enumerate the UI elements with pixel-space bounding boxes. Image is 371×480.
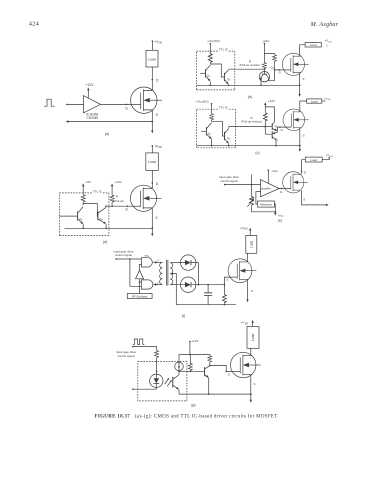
wire resistor to LED (g) [156, 358, 158, 374]
wire gate into bar (b) [284, 69, 291, 71]
node input (e) [224, 184, 226, 186]
resistor R2 right (b) [273, 54, 277, 62]
wire collector up through circle to bus (g) [178, 355, 180, 375]
transistor Q6 (g) [204, 367, 206, 376]
light arrows (g) [165, 379, 172, 387]
svg-text:control signal: control signal [115, 253, 132, 257]
svg-text:S: S [251, 289, 253, 293]
svg-text:2: 2 [230, 139, 232, 141]
svg-text:(d): (d) [103, 240, 107, 244]
svg-text:-Vcc: -Vcc [278, 213, 284, 217]
wire Q2 emitter to rail (b) [228, 83, 230, 86]
svg-text:L: L [327, 46, 329, 48]
wire Q1 emitter to rail (b) [209, 81, 211, 85]
resistor R1 TTL (d) [81, 194, 85, 203]
wire oscillator to inverter and AND2 (f) [139, 279, 141, 294]
wire resistor to node (b) [209, 63, 211, 64]
svg-text:G: G [280, 190, 283, 194]
power terminal +VDD (e) [322, 158, 329, 160]
node center tap (f) [172, 273, 174, 275]
diode D2 circled (f) [181, 277, 196, 292]
wire branch down to AND gate 2 (f) [130, 259, 142, 286]
node D (a) [152, 79, 154, 81]
wire source down and right (e) [302, 191, 328, 205]
power terminal +VDD (a) [152, 40, 154, 42]
node input (f) [115, 258, 117, 260]
svg-text:D: D [156, 182, 159, 186]
node D (d) [152, 182, 154, 184]
transistor Q3 NPN (c) [271, 123, 273, 129]
wire node C to Q3 base (c) [265, 126, 272, 128]
diode D1 circled (f) [181, 255, 196, 270]
input pulse symbol (g) [133, 339, 144, 344]
svg-text:4: 4 [277, 140, 279, 142]
svg-text:S: S [302, 77, 304, 81]
node collector output (g) [209, 365, 211, 367]
transformer core (f) [166, 260, 168, 286]
wire source to rail (c) [299, 128, 301, 146]
node gate branch (f) [224, 284, 226, 286]
svg-text:D: D [156, 78, 159, 82]
wire source down (d) [151, 208, 153, 228]
transistor Q2 (b) [223, 73, 225, 81]
wire gate node line (d) [106, 203, 131, 206]
wire drain up (e) [302, 160, 306, 174]
TTL IC dashed box (b) [197, 51, 235, 90]
wire TTL output to node C (c) [229, 127, 265, 128]
wire phototransistor emitter to rail (g) [178, 390, 180, 395]
svg-text:S: S [253, 382, 255, 386]
wire reference to -Vcc node (e) [273, 204, 276, 212]
LED D3 circled (g) [150, 374, 163, 387]
wire input to resistor (g) [133, 347, 157, 350]
wire AND1 output x to transformer (f) [153, 261, 162, 263]
optocoupler dashed box (g) [138, 362, 187, 401]
power terminal +Vcc (e) [268, 169, 270, 171]
svg-text:G: G [281, 128, 284, 132]
node input (g) [132, 346, 134, 348]
svg-text:amplifier: amplifier [261, 187, 271, 191]
wire input to buffer [67, 103, 84, 105]
ground arrow (d) [151, 228, 153, 235]
wire node to Q2 base (b) [210, 64, 224, 77]
svg-text:M. Asghar: M. Asghar [310, 21, 339, 28]
transistor Q MOSFET (e) [283, 172, 308, 193]
ground arrow (a) [151, 122, 153, 133]
wire source down and ground arrow (f) [247, 280, 249, 301]
op-amp comparator U2 (e) [261, 180, 280, 197]
transistor Q2 (c) [224, 132, 226, 141]
svg-text:Load: Load [310, 158, 317, 162]
svg-text:S: S [303, 197, 305, 201]
wire pot bottom rail (e) [252, 206, 276, 212]
power terminal +VDD (d) [152, 145, 154, 147]
svg-text:S: S [155, 216, 158, 220]
wire Q3 collector up to gate node (b) [274, 70, 276, 81]
svg-text:DD: DD [159, 42, 163, 45]
node source-rail junction (a) [151, 121, 153, 123]
wire bottom rail (a) [67, 121, 153, 123]
wire gate into bar (f) [230, 276, 237, 278]
wire AND outputs to primary ends (f) [161, 262, 163, 284]
load box tall (f) [246, 235, 257, 253]
svg-text:G: G [125, 208, 128, 212]
svg-text:1: 1 [81, 220, 83, 222]
load box tall (g) [247, 327, 259, 349]
resistor R collector (g) [209, 354, 211, 357]
svg-text:G: G [125, 106, 128, 110]
svg-text:Load: Load [148, 160, 156, 164]
wire drain up (c) [300, 101, 307, 112]
svg-text:R: R [116, 194, 118, 198]
resistor R in (g) [155, 350, 159, 359]
wire Q2 emitter to rail (d) [105, 224, 107, 228]
wire inverting input to reference (e) [256, 192, 261, 204]
wire node C down to Q4 base (c) [265, 122, 272, 134]
svg-text:(b): (b) [248, 95, 252, 99]
wire R2 to gate node (b) [275, 62, 284, 70]
svg-text:DD: DD [245, 324, 249, 326]
potentiometer (e) [250, 196, 254, 206]
wire gate into bar (g) [232, 370, 240, 372]
TTL IC dashed box (c) [197, 109, 236, 148]
wire source down (a) [151, 111, 153, 122]
svg-text:DD: DD [328, 99, 332, 101]
transistor Q MOSFET (a) [131, 87, 162, 113]
wire drain up (f) [247, 253, 249, 261]
wire bottom rail (d) [65, 227, 153, 229]
svg-text:D: D [304, 171, 307, 175]
node G (d) [127, 205, 129, 207]
svg-text:control signal: control signal [220, 179, 237, 183]
AND gate U3b (f) [141, 280, 153, 289]
power terminal +12V (g) [189, 341, 191, 343]
resistor R gate (f) [223, 285, 225, 294]
svg-text:(Pull-up resistor): (Pull-up resistor) [241, 119, 262, 123]
AND gate U3a (f) [141, 258, 152, 267]
svg-text:G: G [226, 278, 229, 282]
wire gate into bar (e) [285, 188, 291, 190]
node A (d) [82, 202, 84, 205]
RF oscillator box (f) [127, 294, 152, 299]
svg-text:+Vcc(5V): +Vcc(5V) [207, 39, 220, 43]
power terminal +12V (a) [87, 89, 89, 99]
transistor Q MOSFET (b) [282, 53, 308, 75]
svg-text:Load: Load [251, 334, 255, 342]
svg-text:y: y [157, 280, 159, 284]
svg-text:Load: Load [311, 99, 318, 103]
svg-text:G: G [279, 71, 282, 75]
wire diode outputs joined (f) [196, 263, 199, 285]
load box (b) [305, 43, 321, 47]
wire Q6 emitter to rail (g) [208, 378, 210, 394]
wire secondary bottom to diode D2 (f) [170, 284, 180, 286]
transistor Q MOSFET (f) [228, 259, 256, 283]
svg-text:424: 424 [29, 20, 40, 27]
svg-text:+12V: +12V [114, 180, 122, 184]
svg-text:+12V: +12V [268, 99, 276, 103]
resistor R base pull-up (g) [189, 355, 191, 363]
wire split to second resistor (b) [264, 53, 274, 56]
wire Q3 emitter to rail (b) [260, 81, 262, 86]
wire gate into bar (a) [131, 103, 141, 105]
transistor Q1 (d) [77, 212, 79, 221]
transformer T1 primary (f) [160, 262, 163, 284]
svg-text:+12V: +12V [262, 39, 270, 43]
svg-text:x: x [157, 258, 159, 262]
load box (a) [146, 50, 158, 67]
op-amp buffer U1 CD4049 [84, 96, 101, 113]
wire up to gate (f) [224, 277, 230, 285]
svg-text:(Pull-up): (Pull-up) [113, 199, 124, 203]
svg-text:FIGURE 18.37 (a)–(g): CMOS a: FIGURE 18.37 (a)–(g): CMOS and TTL IC-ba… [95, 415, 278, 420]
svg-text:+Vcc(5V): +Vcc(5V) [196, 99, 209, 103]
svg-text:2: 2 [102, 220, 104, 222]
wire AND2 output y to transformer (f) [153, 284, 162, 286]
wire LED out to return (g) [133, 388, 156, 390]
svg-text:DD: DD [244, 229, 248, 231]
wire gate into bar (c) [287, 126, 291, 128]
ground arrow (b) [299, 85, 301, 96]
wire secondary top to diode D1 (f) [170, 262, 180, 264]
phototransistor Q5 (g) [172, 377, 174, 388]
wire drain up (b) [300, 45, 306, 56]
wire gate into bar (d) [131, 205, 141, 207]
wire Q2 emitter to rail (c) [228, 144, 230, 146]
wire bottom rail (f) [176, 304, 236, 306]
svg-text:(f): (f) [182, 314, 185, 318]
svg-text:S: S [303, 133, 305, 137]
reference box (e) [258, 201, 275, 207]
wire output to gate (g) [210, 366, 233, 372]
resistor R1 TTL (c) [210, 113, 214, 121]
wire node to Q2 base (c) [212, 121, 225, 136]
wire bottom rail (b) [197, 84, 300, 86]
svg-text:TTL IC: TTL IC [219, 48, 229, 52]
load box (c) [307, 99, 322, 103]
wire input to amplifier (e) [225, 184, 261, 186]
small circle detector (g) [175, 362, 184, 371]
wire bottom rail (g) [179, 393, 251, 395]
wire output to gate (e) [279, 188, 285, 190]
svg-text:(g): (g) [191, 403, 195, 407]
svg-text:+12V: +12V [85, 83, 94, 87]
svg-text:DD: DD [330, 156, 334, 158]
resistor R1 TTL (b) [208, 53, 212, 63]
transistor Q4 PNP (c) [271, 131, 273, 138]
wire TTL output to node A (b) [229, 68, 265, 70]
wire bottom rail (c) [197, 145, 300, 147]
wire Q1 emitter to rail (d) [82, 224, 84, 228]
input pulse symbol [44, 99, 55, 106]
wire input to AND gate 1 (f) [116, 258, 141, 260]
svg-text:Load: Load [310, 43, 317, 47]
svg-text:Reference: Reference [260, 203, 273, 207]
transistor Q3 circled (b) [259, 72, 269, 82]
svg-text:(e): (e) [278, 218, 282, 222]
power terminal -Vcc (e) [274, 212, 276, 215]
transistor Q MOSFET (c) [283, 109, 309, 131]
svg-text:(a): (a) [105, 132, 109, 136]
wire load to drain (a) [151, 67, 153, 90]
svg-text:Load: Load [148, 57, 156, 61]
wire resistor to node (c) [211, 121, 213, 122]
wire source to rail (b) [299, 73, 301, 85]
wire buffer output to gate [101, 103, 132, 105]
svg-text:DD: DD [328, 41, 332, 43]
wire node A to Q2 base (d) [83, 204, 98, 217]
resistor R pull-up (d) [110, 195, 114, 203]
svg-text:Load: Load [249, 241, 253, 248]
svg-text:G: G [228, 372, 231, 376]
wire load to drain (d) [151, 170, 153, 188]
ground arrow (c) [299, 146, 301, 151]
TTL IC dashed box (d) [59, 193, 109, 236]
load box (d) [146, 153, 159, 171]
wire +12V bus (g) [179, 354, 210, 356]
transistor Q2 (d) [97, 212, 99, 221]
svg-text:S: S [156, 113, 159, 117]
load box (e) [305, 157, 322, 162]
resistor R pull-up (c) [263, 112, 267, 122]
wire pot stub (e) [251, 175, 253, 196]
wire center tap down (f) [172, 274, 176, 305]
wire rectified output (f) [196, 284, 225, 286]
transformer T1 secondary (f) [170, 263, 173, 285]
svg-text:+12V: +12V [191, 339, 199, 343]
svg-text:+Vcc: +Vcc [272, 169, 279, 173]
wire source down (g) [250, 375, 252, 401]
inverter U4 (f) [136, 270, 144, 279]
svg-text:+5V: +5V [85, 180, 92, 184]
transistor Q MOSFET (g) [230, 352, 260, 377]
wire inverter to AND1 input (f) [140, 264, 142, 270]
wire jog to Q3 collector branch (c) [265, 107, 274, 122]
resistor R pull-up left (b) [262, 62, 266, 69]
svg-text:TTL IC: TTL IC [93, 189, 103, 193]
transistor Q1 (c) [205, 127, 207, 135]
capacitor C1 (f) [207, 284, 209, 286]
svg-text:TTL IC: TTL IC [219, 106, 229, 110]
svg-text:RF Oscillator: RF Oscillator [132, 295, 148, 299]
svg-text:1: 1 [209, 76, 211, 78]
wire Q1 emitter to rail (c) [211, 139, 213, 145]
transistor Q1 (b) [205, 69, 207, 77]
node D (e) [301, 170, 303, 172]
svg-text:DD: DD [159, 146, 163, 149]
node input (a) [66, 104, 68, 106]
svg-text:2: 2 [229, 80, 231, 82]
wire emitters to gate (c) [277, 127, 287, 132]
wire drain up (g) [250, 348, 252, 354]
wire collector node to base (g) [179, 370, 205, 372]
svg-text:1: 1 [210, 134, 212, 136]
node collector junction (g) [178, 371, 180, 373]
node G (a) [125, 104, 127, 106]
transistor Q MOSFET (d) [130, 185, 161, 211]
svg-text:control signal: control signal [117, 354, 134, 358]
svg-text:CD4049: CD4049 [86, 116, 98, 120]
svg-text:(c): (c) [255, 151, 259, 155]
svg-text:(Pull-up resistor): (Pull-up resistor) [240, 63, 261, 67]
